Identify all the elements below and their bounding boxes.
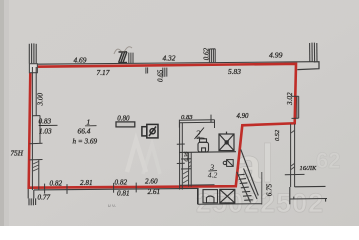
stove appliance: [142, 124, 158, 137]
svg-text:62: 62: [316, 148, 340, 173]
left wall door ticks: [30, 142, 43, 144]
bottom wall ticks: [45, 183, 137, 194]
black top wall line: [34, 62, 314, 64]
watermark chevron letters center: [127, 140, 160, 174]
svg-text:2.81: 2.81: [80, 179, 93, 187]
svg-text:5.83: 5.83: [228, 67, 241, 76]
door 0.80 symbol: [116, 122, 135, 127]
svg-text:0.77: 0.77: [38, 194, 51, 202]
svg-text:2.60: 2.60: [145, 178, 158, 186]
bottom right wall lines: [290, 186, 327, 204]
svg-text:2.61: 2.61: [148, 188, 161, 196]
svg-text:0.65: 0.65: [157, 69, 165, 82]
door 0.62 jamb hatch above line: [209, 49, 215, 63]
0.83 underline left: [39, 124, 58, 126]
svg-text:1: 1: [87, 117, 91, 126]
svg-text:и ч.: и ч.: [108, 203, 116, 209]
svg-text:4.2: 4.2: [208, 171, 218, 180]
svg-text:66.4: 66.4: [78, 127, 91, 136]
svg-text:0.83: 0.83: [39, 118, 52, 126]
svg-text:h = 3.69: h = 3.69: [73, 138, 98, 146]
svg-text:3.00: 3.00: [37, 93, 45, 107]
svg-text:0.62: 0.62: [203, 48, 211, 61]
svg-text:6.75: 6.75: [266, 183, 274, 196]
svg-text:0.82: 0.82: [50, 180, 63, 188]
duct shaft: [181, 152, 192, 186]
left scan edge shading: [0, 0, 4, 226]
svg-text:4.99: 4.99: [269, 51, 283, 60]
door 0.65 jambs below line: [146, 67, 167, 77]
bathroom north wall: [179, 115, 214, 128]
top-left exterior hatch: [29, 43, 36, 63]
top wall opening hatch B: [129, 53, 133, 64]
right wall below red corner: [285, 124, 305, 187]
svg-text:0.81: 0.81: [117, 189, 130, 197]
sink box below wall: [203, 190, 218, 203]
svg-text:4.32: 4.32: [163, 54, 176, 63]
shaft hatch: [183, 162, 191, 184]
top-right exterior hatch: [310, 43, 317, 62]
svg-text:1.03: 1.03: [39, 127, 52, 135]
stairwell left wall: [197, 188, 199, 204]
svg-text:0.36: 0.36: [184, 152, 190, 162]
stairwell base line: [198, 203, 262, 206]
left wall hatch: [33, 162, 39, 172]
top wall opening hatch A: [119, 52, 128, 63]
svg-text:0.83: 0.83: [181, 114, 193, 121]
stairwell ladder: [237, 150, 258, 203]
right red wall ticks: [292, 96, 299, 118]
right wall hatch: [291, 131, 294, 170]
bathroom south wall: [179, 151, 236, 154]
svg-text:4.90: 4.90: [237, 113, 249, 120]
watermark bar: [265, 143, 271, 182]
x-box below wall: [220, 189, 235, 203]
svg-text:0.82: 0.82: [115, 178, 128, 186]
left interior wall: [32, 67, 40, 190]
top-right wall step detail: [297, 62, 319, 70]
svg-text:0.80: 0.80: [117, 115, 130, 123]
room1 number underline: [85, 125, 97, 127]
svg-text:3.02: 3.02: [286, 92, 294, 106]
top-left wall joint box: [29, 64, 37, 73]
bottom-left wall below corner: [28, 189, 35, 205]
bathroom west wall: [177, 123, 185, 190]
stairwell right boundary: [261, 172, 263, 205]
red boundary polygon: [29, 64, 296, 188]
svg-text:16/ЛК: 16/ЛК: [300, 165, 317, 172]
room3 south black line: [180, 184, 215, 186]
black bottom wall line: [34, 188, 198, 190]
svg-text:75Н: 75Н: [11, 149, 24, 157]
dimension texts: [11, 51, 317, 202]
rotated dimension texts: [37, 48, 294, 197]
handwritten room 2 label: [196, 130, 218, 180]
toilet: [198, 139, 209, 152]
svg-text:4.69: 4.69: [74, 56, 87, 65]
vent symbol: [223, 160, 233, 167]
shower tray: [219, 132, 234, 151]
faint pencil mark top: [114, 47, 132, 54]
svg-text:7.17: 7.17: [97, 68, 110, 77]
svg-text:0.52: 0.52: [274, 129, 281, 141]
